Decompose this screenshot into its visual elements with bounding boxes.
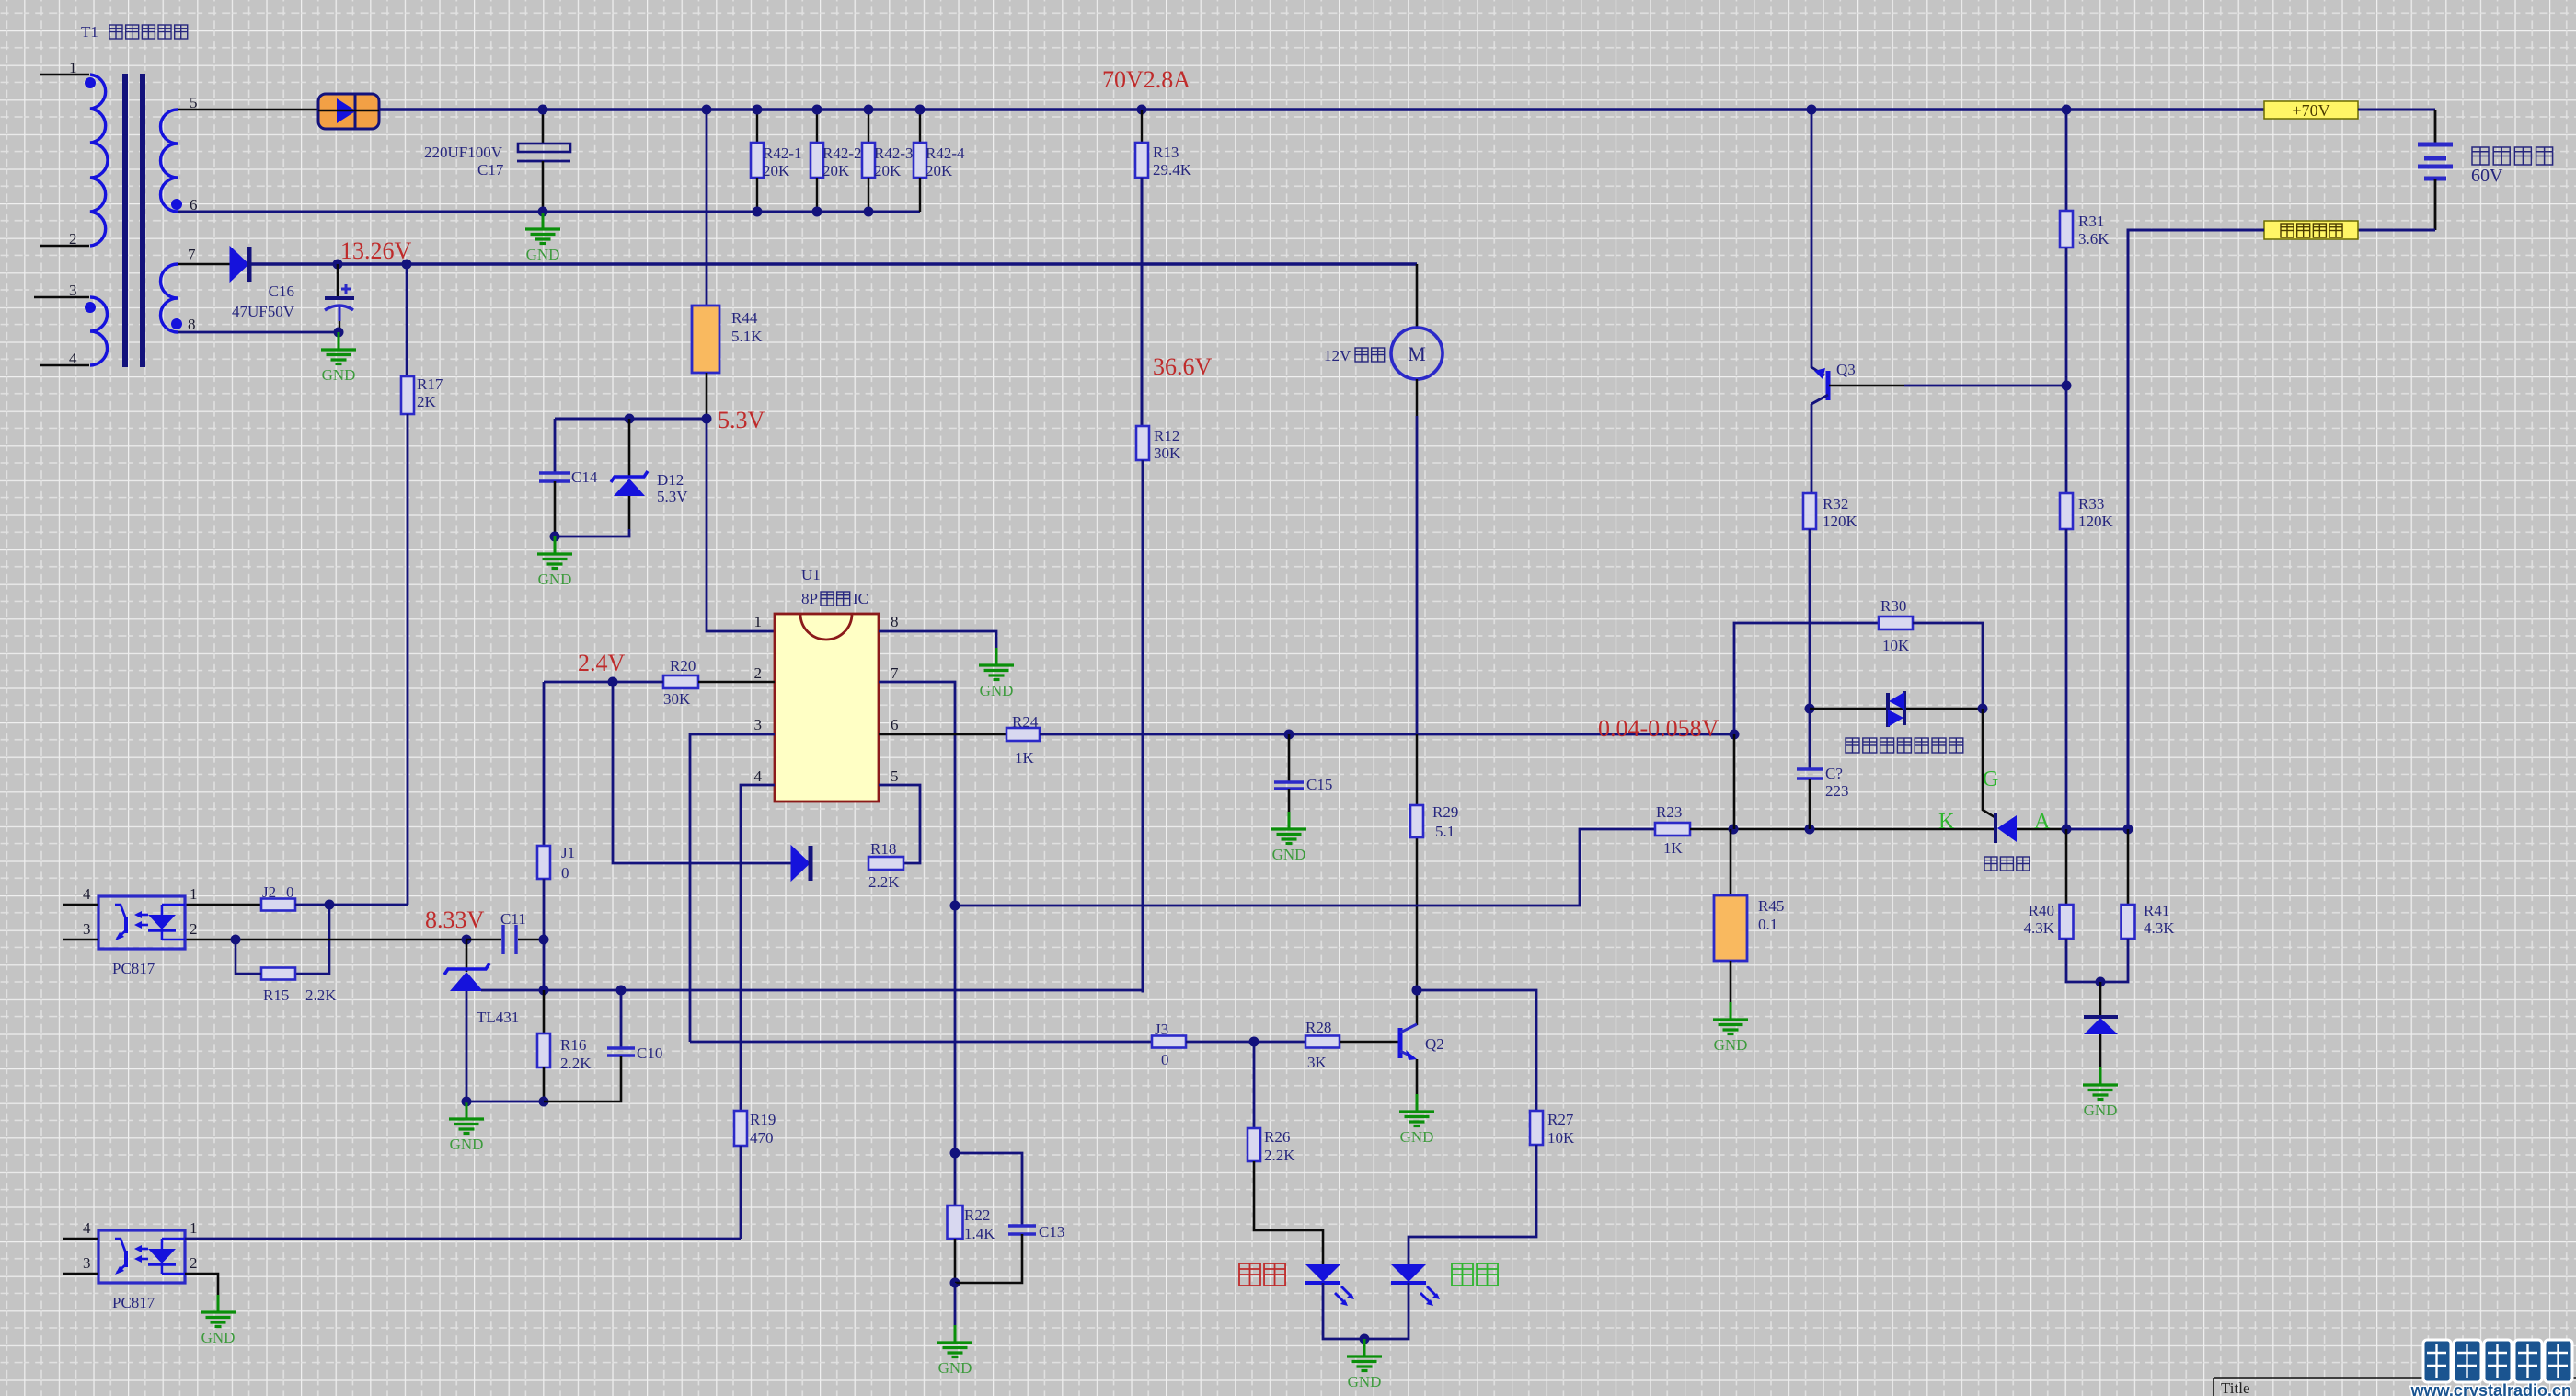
svg-text:C14: C14: [571, 468, 598, 486]
svg-text:R22: R22: [964, 1206, 990, 1224]
wire R20-pin2: [698, 681, 775, 684]
wire R42-4 bottom: [919, 178, 921, 212]
svg-text:PC817: PC817: [112, 960, 155, 977]
resistor J1: [537, 846, 550, 879]
svg-text:2: 2: [190, 920, 198, 938]
junction: [702, 414, 712, 424]
svg-text:C10: C10: [637, 1044, 662, 1062]
netlabel +70V: [2264, 101, 2358, 120]
junction: [1412, 986, 1422, 996]
wire R42-3 top: [868, 110, 869, 143]
resistor R42-3: [862, 143, 875, 178]
wire +70V to battery: [2358, 110, 2435, 144]
wire R29 top: [1416, 734, 1418, 805]
label R23: [1656, 803, 1684, 857]
resistor R23: [1655, 823, 1690, 836]
tl431 TL431: [444, 963, 489, 991]
resistor R44: [692, 306, 719, 373]
svg-text:70V2.8A: 70V2.8A: [1102, 66, 1190, 93]
label 36.6V: [1153, 353, 1213, 380]
pin 7 label: [891, 664, 899, 682]
svg-text:30K: 30K: [1154, 444, 1181, 462]
resistor R42-2: [811, 143, 823, 178]
label R19: [750, 1111, 776, 1147]
svg-text:C11: C11: [500, 910, 526, 928]
svg-text:TL431: TL431: [477, 1009, 519, 1026]
label green: [1452, 1263, 1498, 1286]
resistor R20: [663, 675, 698, 688]
wire J3-R26: [1253, 1042, 1256, 1128]
wire R31 top: [2065, 110, 2068, 211]
junction: [812, 105, 822, 115]
wire R22 bottom: [954, 1239, 957, 1283]
label R42-2: [822, 144, 862, 179]
wire pin2 row: [185, 939, 466, 941]
svg-text:4: 4: [83, 1219, 91, 1237]
wire pc2 pin2: [185, 1274, 218, 1295]
svg-text:7: 7: [891, 664, 899, 682]
wire R45 bottom: [1730, 961, 1732, 1002]
svg-text:GND: GND: [1714, 1036, 1748, 1054]
label U1 type: [801, 590, 868, 607]
ground leds: [1347, 1339, 1382, 1390]
svg-text:R41: R41: [2144, 902, 2169, 919]
svg-text:R31: R31: [2078, 213, 2104, 230]
capacitor C14: [539, 473, 570, 481]
wire diode top: [2099, 982, 2102, 1017]
label R40: [2023, 902, 2054, 937]
svg-text:GND: GND: [201, 1329, 236, 1346]
junction: [950, 1278, 960, 1288]
resistor R30: [1879, 617, 1913, 629]
svg-text:3: 3: [754, 716, 763, 733]
svg-text:R45: R45: [1758, 897, 1784, 915]
ground C14-D12: [537, 536, 572, 588]
wire R12 bottom: [1143, 460, 1144, 991]
svg-text:8: 8: [891, 613, 899, 630]
resistor R16: [537, 1033, 550, 1067]
svg-text:2.2K: 2.2K: [868, 873, 900, 891]
svg-text:Title: Title: [2221, 1379, 2250, 1396]
wire 70V bus: [379, 108, 2264, 111]
svg-text:R18: R18: [870, 840, 896, 858]
wire neg rail: [2128, 230, 2264, 829]
svg-text:R29: R29: [1432, 803, 1458, 821]
svg-text:0: 0: [1161, 1051, 1169, 1068]
ground TL431: [449, 1102, 484, 1153]
label red: [1239, 1263, 1285, 1286]
svg-text:GND: GND: [538, 571, 572, 588]
diac: [1888, 691, 1904, 727]
label U1: [801, 566, 821, 583]
junction: [1360, 1334, 1370, 1344]
svg-text:0.04-0.058V: 0.04-0.058V: [1598, 715, 1719, 742]
label R12: [1154, 427, 1181, 462]
junction: [538, 105, 548, 115]
svg-text:3.6K: 3.6K: [2078, 230, 2110, 248]
svg-text:20K: 20K: [822, 162, 850, 179]
led green: [1391, 1264, 1440, 1306]
label R16: [560, 1036, 592, 1072]
pin 5 label: [190, 94, 198, 111]
resistor R27: [1530, 1111, 1543, 1145]
svg-text:GND: GND: [1400, 1128, 1434, 1146]
label 0.04-0.058V: [1598, 715, 1719, 742]
label R28: [1305, 1019, 1331, 1071]
wire R30 left: [1734, 623, 1879, 734]
svg-text:www.crystalradio.cn: www.crystalradio.cn: [2410, 1381, 2571, 1396]
svg-text:7: 7: [188, 246, 196, 263]
svg-text:R32: R32: [1823, 495, 1848, 513]
netlabel output-neg: [2264, 221, 2358, 239]
wire diode bottom: [2099, 1034, 2102, 1067]
svg-text:1K: 1K: [1663, 839, 1684, 857]
ground C16: [321, 332, 356, 384]
label PC817-1: [112, 960, 155, 977]
wire J3-R28: [1186, 1041, 1305, 1044]
svg-text:3: 3: [83, 1254, 91, 1272]
svg-text:R17: R17: [417, 375, 443, 393]
junction: [2062, 105, 2072, 115]
svg-text:30K: 30K: [663, 690, 691, 708]
svg-text:R23: R23: [1656, 803, 1682, 821]
svg-text:R27: R27: [1547, 1111, 1574, 1128]
svg-text:5.1: 5.1: [1435, 823, 1455, 840]
diode D-7: [230, 247, 249, 282]
svg-text:2.4V: 2.4V: [578, 650, 626, 676]
resistor J3: [1152, 1036, 1186, 1048]
svg-text:36.6V: 36.6V: [1153, 353, 1213, 380]
svg-text:R30: R30: [1880, 597, 1906, 615]
scr: [1983, 709, 2017, 843]
junction: [231, 935, 241, 945]
svg-text:G: G: [1983, 767, 1998, 791]
label R26: [1264, 1128, 1295, 1164]
wire R31-R33: [2065, 248, 2068, 493]
watermark url: [2410, 1381, 2571, 1396]
svg-text:470: 470: [750, 1129, 774, 1147]
junction: [334, 328, 344, 338]
wire pin7-R23 jog: [955, 829, 1655, 906]
label R41: [2144, 902, 2175, 937]
wire C10 bottom: [544, 1056, 621, 1102]
wire R16 top: [543, 990, 546, 1033]
label PC817-2: [112, 1294, 155, 1311]
ground R22: [937, 1325, 972, 1377]
junction: [616, 986, 627, 996]
svg-text:R40: R40: [2029, 902, 2054, 919]
svg-text:R44: R44: [731, 309, 758, 327]
wire pc1 pin3: [63, 939, 98, 941]
svg-text:R42-4: R42-4: [926, 144, 965, 162]
label R15: [263, 986, 337, 1004]
label TL431: [477, 1009, 519, 1026]
junction: [1284, 730, 1294, 740]
label R17: [417, 375, 443, 410]
wire R44 top: [706, 110, 708, 306]
svg-text:2K: 2K: [417, 393, 437, 410]
label C15: [1306, 776, 1332, 793]
label 8.33V: [425, 906, 485, 933]
svg-text:5: 5: [891, 767, 899, 785]
resistor R26: [1248, 1128, 1260, 1161]
svg-text:IC: IC: [853, 590, 868, 607]
svg-text:5.3V: 5.3V: [657, 488, 688, 505]
svg-text:R12: R12: [1154, 427, 1179, 444]
label C13: [1039, 1223, 1064, 1240]
label Q2: [1425, 1035, 1444, 1053]
svg-text:C?: C?: [1825, 765, 1843, 782]
wire R45 top: [1730, 829, 1732, 895]
svg-text:PC817: PC817: [112, 1294, 155, 1311]
svg-text:120K: 120K: [1823, 513, 1858, 530]
label R42-1: [763, 144, 802, 179]
wire Q3 emitter: [1811, 110, 1824, 375]
label C14: [571, 468, 598, 486]
pin 7 label: [188, 246, 196, 263]
pin 1 label: [190, 1219, 198, 1237]
capacitor C10: [607, 1048, 635, 1056]
resistor R42-1: [751, 143, 764, 178]
wire TL431 cathode: [466, 940, 468, 972]
label 2.4V: [578, 650, 626, 676]
wire 2.4V: [544, 681, 663, 684]
wire C14 top: [554, 419, 557, 473]
pin 1 label: [69, 59, 77, 76]
svg-text:R19: R19: [750, 1111, 776, 1128]
svg-text:2.2K: 2.2K: [560, 1055, 592, 1072]
svg-text:GND: GND: [938, 1359, 972, 1377]
wire R42-1 bottom: [756, 178, 758, 212]
led red: [1305, 1264, 1354, 1306]
label SCR: [1984, 857, 2030, 871]
svg-text:2: 2: [69, 230, 77, 248]
wire SCR anode: [2017, 828, 2066, 831]
junction: [915, 105, 926, 115]
wire R13 top: [1141, 110, 1143, 143]
ground U1 pin8: [979, 648, 1014, 699]
svg-text:5.3V: 5.3V: [718, 407, 765, 433]
wire pin7: [178, 263, 230, 266]
label R33: [2078, 495, 2114, 530]
label R18: [868, 840, 900, 891]
resistor R41: [2122, 905, 2135, 939]
svg-text:R42-1: R42-1: [763, 144, 802, 162]
junction: [1137, 105, 1147, 115]
pin 6 label: [190, 196, 198, 213]
label R29: [1432, 803, 1458, 840]
svg-text:GND: GND: [526, 246, 560, 263]
svg-text:20K: 20K: [926, 162, 953, 179]
label R42-4: [926, 144, 965, 179]
svg-text:4.3K: 4.3K: [2023, 919, 2054, 937]
label R24: [1012, 713, 1039, 767]
junction: [325, 900, 335, 910]
resistor R24: [1006, 728, 1040, 741]
label C?: [1825, 765, 1849, 800]
junction: [753, 207, 763, 217]
wire pin5: [178, 109, 318, 111]
wire R17 bottom: [407, 414, 409, 905]
wire R13-R12: [1141, 178, 1144, 426]
wire C? bottom: [1809, 779, 1811, 829]
resistor R45: [1714, 895, 1747, 961]
svg-text:C16: C16: [269, 283, 294, 300]
svg-text:47UF50V: 47UF50V: [232, 303, 295, 320]
junction: [1807, 105, 1817, 115]
svg-text:GND: GND: [1272, 846, 1306, 863]
label R42-3: [874, 144, 914, 179]
resistor R42-4: [914, 143, 926, 178]
junction: [539, 935, 549, 945]
wire 2.4V-diode branch: [613, 682, 791, 863]
wire R28-Q2: [1340, 1041, 1398, 1044]
label G: [1983, 767, 1998, 791]
pin 5 label: [891, 767, 899, 785]
wire R15 left: [236, 940, 261, 974]
svg-text:GND: GND: [322, 366, 356, 384]
svg-text:Q2: Q2: [1425, 1035, 1444, 1053]
junction: [462, 935, 472, 945]
label R32: [1823, 495, 1858, 530]
svg-text:220UF100V: 220UF100V: [424, 144, 503, 161]
label C16: [232, 283, 295, 320]
svg-text:0.1: 0.1: [1758, 916, 1777, 933]
label 70V2.8A: [1102, 66, 1190, 93]
capacitor C13: [1008, 1226, 1036, 1234]
svg-text:R16: R16: [560, 1036, 586, 1054]
wire C? top: [1809, 709, 1811, 768]
wire U1 pin4: [741, 785, 775, 1111]
pin 3 label: [83, 920, 91, 938]
wire R17 top: [406, 264, 408, 376]
wire pin8: [178, 331, 339, 334]
junction: [608, 677, 618, 687]
wire Q2c-R27: [1417, 990, 1536, 1111]
wire C15 bottom: [1288, 789, 1291, 812]
wire pin6 bus: [178, 211, 920, 213]
diode D-R18: [791, 846, 811, 881]
resistor R28: [1305, 1036, 1340, 1048]
wire U1 pin5: [879, 785, 920, 863]
svg-text:K: K: [1938, 810, 1955, 834]
motor M: [1391, 328, 1443, 379]
wire C11 row: [466, 939, 544, 941]
label DIAC: [1846, 738, 1963, 753]
label R44: [731, 309, 763, 345]
junction: [950, 1148, 960, 1159]
ic U1: [775, 614, 879, 802]
wire battery bottom: [2358, 179, 2435, 230]
wire A-neg: [2066, 828, 2128, 831]
junction: [539, 986, 549, 996]
svg-text:R26: R26: [1264, 1128, 1290, 1146]
wire U1 pin8: [879, 631, 996, 648]
diode D12: [611, 471, 648, 496]
wire C15 top: [1288, 734, 1291, 781]
label J2: [262, 883, 294, 901]
label Q3: [1836, 361, 1856, 378]
svg-text:10K: 10K: [1547, 1129, 1575, 1147]
svg-text:C13: C13: [1039, 1223, 1064, 1240]
svg-text:0: 0: [561, 864, 569, 882]
wire R22 gnd: [954, 1283, 957, 1325]
pin 8 label: [891, 613, 899, 630]
svg-text:J1: J1: [561, 844, 575, 861]
junction: [1729, 825, 1739, 835]
junction: [538, 207, 548, 217]
svg-text:2.2K: 2.2K: [1264, 1147, 1295, 1164]
wire 0.04 line: [1040, 733, 1734, 736]
capacitor C?: [1797, 769, 1823, 779]
label R45: [1758, 897, 1784, 933]
pin 4 label: [754, 767, 763, 785]
pin 4 label: [83, 1219, 91, 1237]
wire C17 top: [542, 110, 545, 144]
junction: [864, 207, 874, 217]
wire pc2 pin1 row: [185, 1238, 741, 1240]
label C11: [500, 910, 526, 928]
label C10: [637, 1044, 662, 1062]
wire R22 col: [954, 906, 957, 1206]
wire R27-greenled: [1409, 1145, 1536, 1264]
svg-text:D12: D12: [657, 471, 684, 489]
resistor R32: [1803, 493, 1816, 529]
svg-text:20K: 20K: [763, 162, 790, 179]
label 12V fan: [1324, 347, 1385, 364]
wire Q2 emitter: [1416, 1059, 1419, 1094]
capacitor C11: [503, 925, 516, 954]
svg-text:GND: GND: [1348, 1373, 1382, 1390]
svg-text:1K: 1K: [1015, 749, 1035, 767]
junction: [812, 207, 822, 217]
wire R42-4 top: [919, 110, 921, 143]
label R31: [2078, 213, 2110, 248]
svg-text:20K: 20K: [874, 162, 902, 179]
wire R15 loop: [295, 905, 329, 974]
junction: [1978, 704, 1988, 714]
wire TL431 anode bus: [481, 989, 1144, 992]
junction: [702, 105, 712, 115]
wire DIAC line: [1810, 708, 1983, 710]
resistor R33: [2060, 493, 2073, 529]
svg-text:8.33V: 8.33V: [425, 906, 485, 933]
svg-text:10K: 10K: [1882, 637, 1910, 654]
svg-text:A: A: [2034, 810, 2051, 834]
resistor R19: [734, 1111, 747, 1146]
svg-text:J3: J3: [1155, 1021, 1168, 1038]
junction: [1805, 825, 1815, 835]
svg-text:R33: R33: [2078, 495, 2104, 513]
svg-text:+70V: +70V: [2292, 101, 2329, 120]
wire R19 bottom: [740, 1146, 742, 1239]
svg-text:R15: R15: [263, 986, 289, 1004]
pin 2 label: [69, 230, 77, 248]
title block: [2214, 1378, 2576, 1396]
svg-text:C17: C17: [477, 161, 504, 179]
junction: [625, 414, 635, 424]
svg-text:2.2K: 2.2K: [305, 986, 337, 1004]
ground C15: [1271, 812, 1306, 863]
capacitor C15: [1274, 782, 1304, 789]
resistor R17: [401, 376, 414, 414]
capacitor C16: [325, 284, 354, 321]
resistor R13: [1135, 143, 1148, 178]
svg-text:3: 3: [83, 920, 91, 938]
wire SCR gate: [1983, 623, 1995, 817]
svg-text:3K: 3K: [1307, 1054, 1328, 1071]
wire TL431 anode down: [466, 991, 468, 1102]
